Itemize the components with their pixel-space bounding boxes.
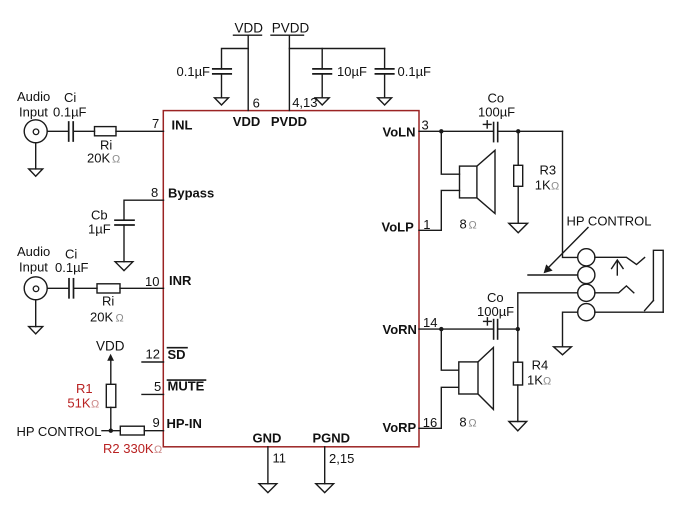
svg-text:11: 11 bbox=[273, 451, 287, 466]
plus sign Co1 bbox=[483, 123, 491, 125]
svg-text:0.1µF: 0.1µF bbox=[53, 105, 87, 120]
pin VoRP name bbox=[383, 420, 417, 435]
wire sleeve to plug bbox=[595, 311, 663, 313]
wire tip switch bbox=[595, 257, 645, 264]
pin 12 number bbox=[146, 347, 160, 362]
svg-text:Co: Co bbox=[487, 290, 504, 305]
node HP CONTROL junction bbox=[109, 429, 113, 433]
wire R4 to ground bbox=[517, 385, 519, 422]
net HP CONTROL label right bbox=[567, 214, 652, 229]
svg-text:VoLP: VoLP bbox=[382, 220, 415, 235]
wire R1 to junction bbox=[110, 407, 112, 430]
pin Bypass name bbox=[168, 185, 214, 200]
capacitor Ci 0.1uF left bbox=[68, 122, 70, 141]
svg-text:Bypass: Bypass bbox=[168, 185, 214, 200]
svg-text:Input: Input bbox=[19, 105, 48, 120]
wire C1 to ground bbox=[221, 74, 223, 98]
pin 6 number bbox=[253, 95, 260, 110]
pin VDD name bbox=[233, 114, 260, 129]
wire C3 to ground bbox=[384, 74, 386, 98]
svg-text:R1: R1 bbox=[76, 381, 93, 396]
wire ring switch bbox=[595, 286, 634, 293]
svg-text:20K: 20K bbox=[90, 310, 113, 325]
svg-text:100µF: 100µF bbox=[478, 105, 515, 120]
net VDD label top bbox=[235, 20, 264, 35]
node VoLN-speaker junction bbox=[439, 129, 443, 133]
ground under GND bbox=[259, 484, 277, 493]
pin SD name bbox=[168, 347, 186, 362]
ground under Cb bbox=[115, 262, 133, 271]
speaker LS2 horn bbox=[478, 348, 493, 410]
svg-text:6: 6 bbox=[253, 95, 260, 110]
MUTE overline bbox=[168, 379, 206, 381]
wire to R4 bbox=[517, 329, 519, 362]
wire VoLN to Co1 bbox=[419, 130, 493, 132]
wire GND to ground bbox=[267, 447, 269, 484]
ground under C3 bbox=[378, 98, 392, 105]
pin 7 number bbox=[152, 116, 159, 131]
svg-text:GND: GND bbox=[253, 430, 282, 445]
svg-text:PVDD: PVDD bbox=[272, 20, 310, 35]
pin MUTE name bbox=[168, 379, 205, 394]
svg-text:R4: R4 bbox=[532, 358, 549, 373]
pin 2,15 number bbox=[329, 451, 354, 466]
svg-text:Ω: Ω bbox=[116, 313, 124, 325]
pin 5 number bbox=[154, 379, 161, 394]
wire Cb to ground bbox=[123, 225, 125, 262]
arrow to VDD bbox=[107, 354, 114, 361]
wire RCA2 to Ci2 bbox=[47, 287, 69, 289]
wire VoLP to speaker1 bbox=[419, 229, 441, 231]
VDD underline bbox=[234, 34, 262, 36]
svg-text:2,15: 2,15 bbox=[329, 451, 354, 466]
wire Co2 to junction bbox=[498, 328, 518, 330]
wire sleeve to ground bbox=[563, 312, 578, 346]
resistor Ri 20K left bbox=[95, 127, 117, 136]
wire Ci2 to Ri2 bbox=[74, 287, 97, 289]
svg-text:0.1µF: 0.1µF bbox=[55, 260, 89, 275]
svg-text:HP CONTROL: HP CONTROL bbox=[567, 214, 652, 229]
ground under RCA2 bbox=[29, 327, 43, 334]
svg-text:HP-IN: HP-IN bbox=[167, 416, 202, 431]
svg-text:8: 8 bbox=[460, 217, 467, 232]
wire sense arrow up bbox=[616, 262, 618, 276]
svg-text:INR: INR bbox=[169, 273, 192, 288]
net HP CONTROL label left bbox=[17, 424, 102, 439]
svg-text:Audio: Audio bbox=[17, 89, 50, 104]
SD overline bbox=[168, 347, 188, 349]
PVDD underline bbox=[271, 34, 304, 36]
svg-text:SD: SD bbox=[168, 347, 186, 362]
svg-text:0.1µF: 0.1µF bbox=[398, 64, 432, 79]
wire Ri2 to pin 10 bbox=[120, 287, 164, 289]
wire VDD vertical to pin 6 bbox=[247, 35, 249, 110]
pin 3 number bbox=[422, 118, 429, 133]
svg-text:Ω: Ω bbox=[469, 220, 477, 232]
svg-text:Cb: Cb bbox=[91, 208, 108, 223]
svg-text:7: 7 bbox=[152, 116, 159, 131]
svg-text:1K: 1K bbox=[527, 373, 543, 388]
svg-text:0.1µF: 0.1µF bbox=[177, 64, 211, 79]
wire PVDD vertical to pin 4,13 bbox=[288, 35, 290, 110]
svg-text:51K: 51K bbox=[67, 396, 90, 411]
headphone jack J3 sleeve contact bbox=[578, 304, 595, 321]
svg-text:PVDD: PVDD bbox=[271, 114, 307, 129]
ground under C1 bbox=[215, 98, 229, 105]
pin PGND name bbox=[313, 430, 351, 445]
RCA jack J2 audio input right bbox=[24, 277, 47, 300]
headphone jack J3 ring contact bbox=[578, 284, 595, 301]
svg-text:VoRN: VoRN bbox=[383, 322, 417, 337]
node VoRN-speaker junction bbox=[439, 327, 443, 331]
svg-text:Ω: Ω bbox=[112, 154, 120, 166]
pin VoLN name bbox=[383, 125, 416, 140]
speaker LS2 8 ohm label bbox=[459, 415, 476, 430]
resistor Ri 20K right bbox=[97, 284, 120, 293]
wire HP CONTROL to R2 bbox=[102, 430, 120, 432]
svg-text:INL: INL bbox=[172, 117, 193, 132]
pin 10 number bbox=[145, 274, 159, 289]
svg-text:8: 8 bbox=[459, 415, 466, 430]
svg-text:10: 10 bbox=[145, 274, 159, 289]
svg-text:14: 14 bbox=[423, 315, 437, 330]
svg-text:Ω: Ω bbox=[154, 444, 162, 456]
arrow HP CONTROL pointer bbox=[548, 228, 589, 269]
svg-text:VDD: VDD bbox=[233, 114, 260, 129]
pin INL name bbox=[172, 117, 193, 132]
svg-text:R2 330K: R2 330K bbox=[103, 441, 154, 456]
svg-text:1K: 1K bbox=[535, 178, 551, 193]
pin VoRN name bbox=[383, 322, 417, 337]
headphone plug body bbox=[653, 250, 663, 312]
svg-text:5: 5 bbox=[154, 379, 161, 394]
svg-text:Ci: Ci bbox=[64, 90, 76, 105]
svg-text:1: 1 bbox=[423, 217, 430, 232]
resistor R1 51K bbox=[106, 384, 116, 407]
capacitor Ci 0.1uF right bbox=[68, 279, 70, 298]
wire C2 to ground bbox=[321, 74, 323, 98]
wire VoRN to Co2 bbox=[419, 328, 493, 330]
wire R2 to pin 9 bbox=[144, 430, 163, 432]
pin 11 number bbox=[273, 451, 287, 466]
wire pin 5 MUTE stub bbox=[142, 393, 164, 395]
wire Co1 to HP tip bbox=[498, 130, 563, 132]
wire PGND to ground bbox=[324, 447, 326, 484]
pin HP-IN name bbox=[167, 416, 202, 431]
wire speaker2 bottom bbox=[441, 387, 459, 428]
node Co2-R4 junction bbox=[516, 327, 520, 331]
svg-text:Ω: Ω bbox=[468, 418, 476, 430]
wire PVDD branch right bbox=[289, 48, 384, 50]
pin PVDD name bbox=[271, 114, 307, 129]
pin GND name bbox=[253, 430, 282, 445]
IC U1 TPA body bbox=[163, 111, 419, 447]
wire to R3 bbox=[517, 131, 519, 165]
ground under C2 bbox=[315, 98, 329, 105]
svg-text:VoLN: VoLN bbox=[383, 125, 416, 140]
pin 1 number bbox=[423, 217, 430, 232]
capacitor C1 0.1uF bbox=[213, 68, 231, 70]
svg-text:Ω: Ω bbox=[543, 376, 551, 388]
wire drop to C3 bbox=[384, 49, 386, 69]
resistor R3 1K bbox=[514, 165, 523, 186]
svg-text:9: 9 bbox=[153, 415, 160, 430]
wire pin 8 bypass bbox=[124, 200, 164, 220]
pin VoLP name bbox=[382, 220, 415, 235]
wire speaker1 bottom bbox=[441, 190, 459, 230]
ground under R3 bbox=[509, 223, 528, 233]
svg-text:10µF: 10µF bbox=[337, 64, 367, 79]
wire drop to C2 bbox=[321, 49, 323, 69]
svg-text:3: 3 bbox=[422, 118, 429, 133]
node Co1-R3 junction bbox=[516, 129, 520, 133]
pin 8 number bbox=[151, 185, 158, 200]
ground under R4 bbox=[509, 422, 527, 431]
pin 9 number bbox=[153, 415, 160, 430]
headphone plug chamfer bbox=[645, 301, 654, 311]
pin 14 number bbox=[423, 315, 437, 330]
svg-text:20K: 20K bbox=[87, 151, 110, 166]
capacitor Co2 100uF bbox=[493, 320, 495, 339]
svg-text:HP CONTROL: HP CONTROL bbox=[17, 424, 102, 439]
svg-text:Ω: Ω bbox=[551, 181, 559, 193]
svg-text:16: 16 bbox=[423, 415, 437, 430]
plus sign Co2 bbox=[484, 320, 492, 322]
svg-text:Co: Co bbox=[488, 91, 505, 106]
svg-text:100µF: 100µF bbox=[477, 304, 514, 319]
net PVDD label top bbox=[272, 20, 310, 35]
wire speaker1 top bbox=[441, 131, 459, 174]
svg-text:4,13: 4,13 bbox=[292, 95, 317, 110]
pin 16 number bbox=[423, 415, 437, 430]
speaker LS1 8 ohm label bbox=[460, 217, 477, 232]
svg-text:Ω: Ω bbox=[91, 399, 99, 411]
svg-text:PGND: PGND bbox=[313, 430, 351, 445]
ground under RCA1 bbox=[29, 169, 43, 176]
capacitor Co1 100uF bbox=[493, 123, 495, 142]
wire RCA1 to ground bbox=[35, 143, 37, 169]
speaker LS1 horn bbox=[477, 150, 495, 213]
svg-text:12: 12 bbox=[146, 347, 160, 362]
ground under sleeve bbox=[554, 347, 572, 355]
svg-text:VDD: VDD bbox=[235, 20, 264, 35]
wire VDD branch left bbox=[222, 49, 249, 69]
wire RCA1 to Ci1 bbox=[47, 130, 68, 132]
wire RCA2 to ground bbox=[35, 300, 37, 327]
capacitor Cb 1uF bbox=[115, 219, 134, 221]
resistor R2 330K bbox=[120, 426, 144, 435]
ground under PGND bbox=[316, 484, 334, 493]
net VDD pullup label bbox=[96, 338, 125, 353]
svg-text:8: 8 bbox=[151, 185, 158, 200]
wire Ci1 to Ri1 bbox=[73, 130, 94, 132]
wire VoRN up to HP ring bbox=[518, 293, 578, 329]
svg-text:VoRP: VoRP bbox=[383, 420, 417, 435]
wire Ri1 to pin 7 bbox=[116, 130, 164, 132]
speaker LS1 box bbox=[460, 166, 477, 198]
wire VoLN down to HP tip bbox=[563, 131, 578, 257]
speaker LS2 box bbox=[459, 362, 478, 394]
capacitor C2 10uF bbox=[313, 68, 331, 70]
wire R3 to ground bbox=[517, 186, 519, 223]
headphone jack J3 sense contact bbox=[578, 266, 595, 283]
wire pin 12 SD stub bbox=[142, 361, 164, 363]
pin 4,13 number bbox=[292, 95, 317, 110]
pin INR name bbox=[169, 273, 192, 288]
svg-text:VDD: VDD bbox=[96, 338, 125, 353]
svg-text:1µF: 1µF bbox=[88, 222, 111, 237]
RCA jack J1 audio input left bbox=[24, 120, 47, 143]
svg-text:Audio: Audio bbox=[17, 244, 50, 259]
svg-text:Ri: Ri bbox=[102, 294, 114, 309]
svg-text:R3: R3 bbox=[540, 163, 557, 178]
capacitor C3 0.1uF bbox=[375, 68, 393, 70]
svg-text:Input: Input bbox=[19, 260, 48, 275]
resistor R4 1K bbox=[513, 362, 522, 385]
wire VoRP to speaker2 bbox=[419, 427, 441, 429]
headphone jack J3 tip contact bbox=[578, 249, 595, 266]
wire speaker2 top bbox=[441, 329, 459, 370]
wire HP sense open end bbox=[528, 274, 578, 276]
